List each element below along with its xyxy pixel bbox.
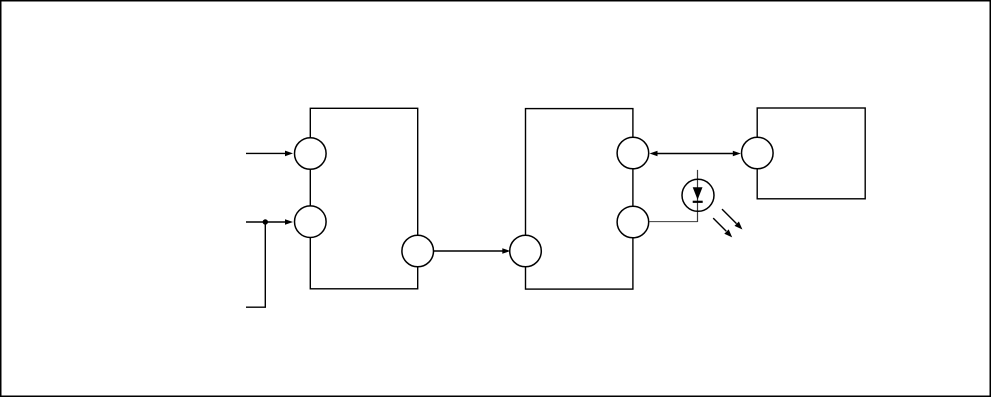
node pin 5 bbox=[617, 137, 649, 169]
wire feedback stub bbox=[246, 222, 265, 307]
LED D1 bbox=[682, 179, 714, 211]
block 3 bbox=[757, 108, 865, 199]
wire input 2 bbox=[246, 219, 293, 225]
junction dot bbox=[263, 219, 268, 224]
wire input 1 bbox=[246, 151, 293, 157]
node pin 1 bbox=[295, 138, 327, 170]
node pin 7 bbox=[742, 137, 774, 169]
node pin 4 bbox=[510, 235, 542, 267]
light emission arrow 1 bbox=[722, 209, 742, 229]
light emission arrow 2 bbox=[713, 218, 732, 237]
node pin 6 bbox=[617, 206, 649, 238]
node pin 2 bbox=[295, 206, 327, 238]
node pin 3 bbox=[402, 235, 434, 267]
block 2 bbox=[526, 109, 633, 290]
block 1 bbox=[310, 108, 417, 288]
wire block1 to block2 arrow bbox=[434, 248, 511, 254]
wire LED anode lead bbox=[697, 170, 699, 222]
wire LED to pin 6 bbox=[649, 221, 698, 223]
wire double arrow block2 to block3 bbox=[650, 151, 741, 157]
